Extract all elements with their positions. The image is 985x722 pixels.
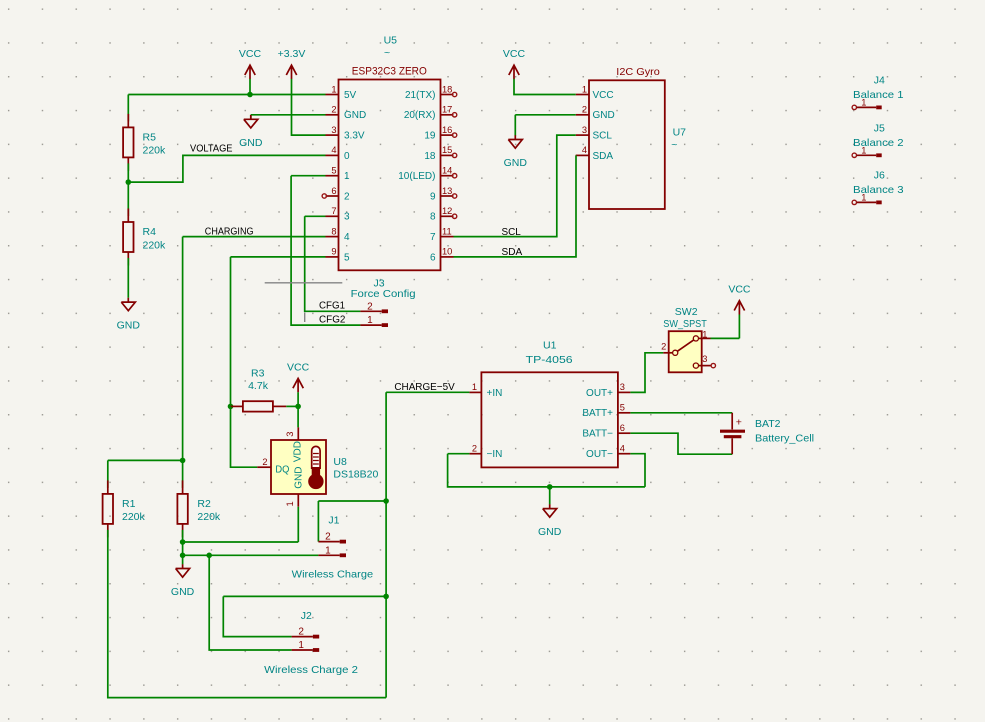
wire OUT- to GND rail — [630, 454, 645, 487]
ground (R4) — [117, 298, 141, 332]
U5 pin 13 9 — [430, 186, 457, 203]
svg-text:VCC: VCC — [593, 90, 614, 101]
U5 pin 8 4 — [326, 226, 351, 243]
svg-text:SCL: SCL — [593, 131, 613, 142]
U7 pin 2 GND — [576, 105, 615, 122]
wire BATT+ to battery — [630, 412, 732, 414]
svg-text:VCC: VCC — [239, 48, 262, 60]
U5 pin 17 20(RX) — [404, 105, 457, 122]
resistor R2 220k — [177, 480, 221, 537]
J2 pin 2 — [292, 627, 320, 639]
J1 pin 1 — [318, 545, 346, 557]
junction J2 branch — [383, 594, 389, 600]
U5 pin 1 5V — [326, 84, 357, 101]
connector J5 Balance 2 — [852, 122, 904, 157]
svg-text:TP-4056: TP-4056 — [526, 354, 573, 366]
svg-text:VDD: VDD — [293, 441, 304, 462]
svg-text:10: 10 — [442, 247, 452, 257]
svg-text:R2: R2 — [197, 498, 211, 510]
wire node to U8 DQ — [231, 406, 258, 467]
U5 pin 14 10(LED) — [398, 166, 457, 183]
U5 pin 16 19 — [424, 125, 456, 142]
U1 pin 1 +IN — [469, 382, 502, 399]
J3 pin 1 — [360, 315, 388, 327]
wire R5 to junction — [127, 163, 129, 182]
wire VOLTAGE net to U5 pin4 — [128, 155, 325, 182]
svg-text:4: 4 — [344, 232, 350, 243]
svg-text:2: 2 — [472, 444, 477, 454]
resistor R3 4.7k — [231, 368, 287, 412]
svg-text:17: 17 — [442, 105, 452, 115]
svg-text:Wireless Charge: Wireless Charge — [292, 569, 374, 581]
svg-text:I2C Gyro: I2C Gyro — [616, 66, 660, 78]
power symbol VCC (R3/U8) — [287, 361, 310, 392]
wire J1 pin2 branch — [318, 501, 386, 542]
op-amp U5 ESP32C3 ZERO body — [339, 80, 441, 271]
power symbol +3.3V — [278, 48, 306, 79]
svg-text:CHARGING: CHARGING — [205, 225, 254, 237]
wire U5 pin7 to CFG1 — [305, 216, 361, 311]
svg-text:J5: J5 — [874, 122, 885, 134]
wire node to U8 VDD — [297, 406, 299, 427]
power symbol VCC (U7) — [503, 48, 526, 79]
svg-text:5: 5 — [344, 252, 350, 263]
svg-text:21(TX): 21(TX) — [405, 90, 436, 101]
svg-text:2: 2 — [582, 105, 587, 115]
svg-text:Battery_Cell: Battery_Cell — [755, 433, 814, 445]
junction VOLTAGE divider — [126, 179, 132, 185]
svg-text:1: 1 — [702, 330, 707, 340]
U5 pin 4 0 — [326, 145, 351, 162]
svg-text:R3: R3 — [251, 368, 265, 380]
J2 pin 1 — [292, 640, 320, 652]
svg-text:BATT−: BATT− — [582, 429, 613, 440]
junction R3 left — [228, 404, 234, 410]
svg-text:3: 3 — [702, 354, 707, 364]
junction J1/J2 branch — [206, 553, 212, 559]
U1 pin 4 OUT- — [586, 444, 630, 461]
svg-text:CFG2: CFG2 — [319, 313, 346, 325]
svg-text:220k: 220k — [197, 511, 221, 523]
svg-text:18: 18 — [424, 151, 436, 162]
U5 pin 2 GND — [326, 105, 367, 122]
op-amp U1 TP-4056 body — [481, 372, 618, 467]
svg-text:6: 6 — [331, 186, 336, 196]
U5 pin 18 21(TX) — [405, 84, 457, 101]
wire CHARGE-5V vertical — [385, 392, 387, 596]
svg-text:12: 12 — [442, 206, 452, 216]
U5 pin 12 8 — [430, 206, 457, 223]
svg-text:0: 0 — [344, 151, 350, 162]
svg-text:220k: 220k — [143, 145, 167, 157]
svg-text:3: 3 — [582, 125, 587, 135]
svg-text:2: 2 — [344, 191, 350, 202]
wire CHARGING net to U5 pin8 — [183, 236, 326, 238]
U1 pin 5 BATT+ — [582, 403, 630, 420]
svg-text:20(RX): 20(RX) — [404, 110, 436, 121]
U7 pin 3 SCL — [576, 125, 613, 142]
wire CHARGING down to divider — [182, 237, 184, 461]
junction R2 / U8 GND rail — [180, 539, 186, 545]
wire divider top rail — [108, 459, 183, 461]
junction VCC / 5V — [247, 92, 253, 98]
transistor U8 DS18B20 body — [257, 427, 326, 506]
svg-text:1: 1 — [285, 501, 295, 506]
svg-text:DQ: DQ — [275, 464, 289, 475]
svg-text:OUT−: OUT− — [586, 449, 613, 460]
wire U5 pin9 to R3/DQ — [231, 257, 326, 407]
svg-text:1: 1 — [861, 98, 866, 108]
svg-text:1: 1 — [472, 382, 477, 392]
svg-text:11: 11 — [442, 226, 452, 236]
U5 pin 3 3.3V — [326, 125, 365, 142]
wire to R2 — [182, 460, 184, 488]
svg-text:7: 7 — [430, 232, 436, 243]
svg-text:6: 6 — [430, 252, 436, 263]
svg-text:9: 9 — [430, 191, 436, 202]
svg-text:R5: R5 — [143, 131, 157, 143]
svg-text:+: + — [736, 417, 742, 429]
U1 pin 3 OUT+ — [586, 382, 630, 399]
svg-text:6: 6 — [620, 423, 625, 433]
resistor R4 220k — [123, 209, 166, 266]
svg-text:14: 14 — [442, 166, 452, 176]
power symbol VCC (SW2) — [728, 284, 751, 315]
svg-text:1: 1 — [344, 171, 350, 182]
svg-text:GND: GND — [117, 320, 141, 332]
connector J1 Wireless Charge — [328, 514, 339, 526]
svg-text:4: 4 — [331, 145, 336, 155]
svg-text:VCC: VCC — [728, 284, 751, 296]
wire VCC stem — [249, 79, 251, 95]
U5 pin 5 1 — [326, 166, 351, 183]
battery BAT2 Battery_Cell — [720, 413, 814, 454]
svg-text:3: 3 — [344, 212, 350, 223]
svg-text:1: 1 — [298, 640, 304, 651]
svg-text:OUT+: OUT+ — [586, 388, 613, 399]
svg-text:GND: GND — [239, 137, 263, 149]
wire U5 GND pin to ground — [251, 115, 326, 120]
connector J6 Balance 3 — [852, 170, 904, 205]
ground (U7) — [504, 135, 528, 169]
wire VCC to R5 — [127, 95, 129, 122]
power symbol VCC (U5 5V) — [239, 48, 262, 79]
svg-text:−IN: −IN — [487, 449, 503, 460]
svg-text:19: 19 — [424, 131, 436, 142]
graphic line (gray) horizontal — [265, 282, 343, 284]
svg-text:220k: 220k — [143, 239, 167, 251]
U8 thermometer icon — [308, 446, 323, 489]
svg-text:Wireless Charge 2: Wireless Charge 2 — [264, 664, 358, 676]
svg-text:5: 5 — [620, 403, 625, 413]
svg-text:SW2: SW2 — [675, 306, 698, 318]
svg-text:1: 1 — [861, 145, 866, 155]
svg-text:~: ~ — [671, 139, 677, 151]
svg-text:J6: J6 — [874, 170, 885, 182]
svg-text:U5: U5 — [384, 34, 398, 46]
svg-text:2: 2 — [661, 341, 666, 351]
wire -IN to GND rail — [448, 454, 645, 487]
ground (U5 pin2) — [239, 115, 263, 149]
svg-text:2: 2 — [262, 457, 267, 467]
wire U5 pin5 to CFG2 — [291, 176, 360, 325]
wire to ground — [182, 555, 184, 564]
svg-text:5V: 5V — [344, 90, 357, 101]
svg-text:7: 7 — [331, 206, 336, 216]
wire U8 GND to rail — [183, 507, 299, 542]
svg-text:220k: 220k — [122, 511, 146, 523]
U5 pin 6 2 — [322, 186, 350, 203]
wire OUT+ to SW2 — [630, 353, 663, 393]
connector J3 Force Config — [351, 278, 416, 300]
graphic line (gray) vertical — [304, 313, 306, 323]
svg-text:16: 16 — [442, 125, 452, 135]
svg-text:GND: GND — [538, 526, 562, 538]
resistor R1 220k — [103, 480, 146, 537]
svg-text:SDA: SDA — [502, 246, 523, 258]
svg-text:8: 8 — [430, 212, 436, 223]
svg-text:VOLTAGE: VOLTAGE — [190, 142, 233, 154]
wire R3 to VCC node — [286, 405, 298, 407]
svg-text:SCL: SCL — [502, 226, 521, 238]
svg-text:1: 1 — [367, 315, 373, 326]
svg-text:CFG1: CFG1 — [319, 300, 345, 312]
U1 pin 2 -IN — [469, 444, 502, 461]
connector J4 Balance 1 — [852, 75, 904, 110]
svg-text:2: 2 — [298, 627, 304, 638]
svg-text:GND: GND — [293, 467, 304, 489]
svg-text:3: 3 — [620, 382, 625, 392]
U7 pin 1 VCC — [576, 84, 614, 101]
wire to ground — [549, 487, 551, 505]
svg-text:1: 1 — [582, 84, 587, 94]
op-amp U7 I2C Gyro body — [589, 80, 665, 209]
wire rail link — [182, 542, 184, 555]
svg-text:2: 2 — [331, 105, 336, 115]
junction U1 GND — [547, 484, 553, 490]
resistor R5 220k — [123, 114, 166, 171]
svg-text:~: ~ — [384, 47, 390, 59]
svg-text:J2: J2 — [301, 610, 312, 622]
svg-text:VCC: VCC — [503, 48, 526, 60]
svg-text:GND: GND — [504, 157, 528, 169]
svg-text:Force Config: Force Config — [351, 288, 416, 300]
junction R3 right / VDD — [295, 404, 301, 410]
svg-text:13: 13 — [442, 186, 452, 196]
wire VCC stem to node — [297, 392, 299, 406]
svg-text:18: 18 — [442, 84, 452, 94]
svg-text:1: 1 — [325, 545, 331, 556]
svg-text:8: 8 — [331, 226, 336, 236]
svg-text:4: 4 — [620, 444, 625, 454]
svg-text:GND: GND — [593, 110, 615, 121]
svg-text:10(LED): 10(LED) — [398, 171, 435, 182]
wire SCL net — [454, 135, 576, 237]
svg-text:SW_SPST: SW_SPST — [663, 318, 707, 330]
wire R4 to ground — [127, 258, 129, 298]
wire rail to J1 pin1 — [183, 554, 319, 556]
svg-text:VCC: VCC — [287, 361, 310, 373]
wire +3.3V to U5 pin3 — [292, 79, 326, 135]
junction J1 pin2 branch — [383, 498, 389, 504]
connector J2 Wireless Charge 2 — [301, 610, 312, 622]
svg-text:U1: U1 — [543, 339, 557, 351]
svg-text:3: 3 — [331, 125, 336, 135]
U5 pin 11 7 — [430, 226, 454, 243]
wire to R1 — [107, 460, 109, 488]
wire SDA net — [454, 155, 577, 257]
svg-text:4.7k: 4.7k — [248, 380, 269, 392]
svg-text:1: 1 — [331, 84, 336, 94]
svg-text:+3.3V: +3.3V — [278, 48, 306, 60]
U5 pin 7 3 — [326, 206, 351, 223]
J1 pin 2 — [318, 532, 346, 544]
U5 pin 15 18 — [424, 145, 456, 162]
svg-text:SDA: SDA — [593, 151, 614, 162]
wire SW2 to VCC — [711, 337, 740, 339]
svg-text:BATT+: BATT+ — [582, 408, 613, 419]
junction GND rail — [180, 553, 186, 559]
svg-text:ESP32C3 ZERO: ESP32C3 ZERO — [352, 66, 427, 78]
wire R1 to bottom rail — [108, 530, 386, 698]
wire bottom rail up — [385, 596, 387, 697]
svg-text:2: 2 — [325, 532, 331, 543]
svg-text:J4: J4 — [874, 75, 885, 87]
ground (U1) — [538, 504, 562, 538]
svg-text:1: 1 — [861, 193, 866, 203]
svg-text:R4: R4 — [143, 226, 157, 238]
U5 pin 10 6 — [430, 247, 454, 264]
ground (R2/J1) — [171, 564, 195, 598]
wire BATT- to battery — [630, 433, 732, 454]
U1 pin 6 BATT- — [582, 423, 630, 440]
svg-text:R1: R1 — [122, 498, 136, 510]
svg-text:U8: U8 — [333, 456, 347, 468]
wire 5V net to U5 pin1 — [128, 94, 325, 96]
wire VCC to U7 pin1 — [514, 79, 576, 95]
wire J2 pin1 branch — [209, 555, 291, 650]
wire junction to R4 — [127, 182, 129, 216]
svg-text:3: 3 — [285, 432, 295, 437]
svg-text:CHARGE−5V: CHARGE−5V — [394, 381, 454, 393]
svg-text:+IN: +IN — [487, 388, 503, 399]
svg-text:BAT2: BAT2 — [755, 418, 781, 430]
svg-text:DS18B20: DS18B20 — [333, 468, 378, 480]
junction CHARGING / R1 / R2 — [180, 458, 186, 464]
svg-text:J1: J1 — [328, 514, 339, 526]
svg-text:GND: GND — [344, 110, 366, 121]
wire CHARGE-5V to +IN — [386, 391, 469, 393]
wire R2 to rail — [182, 530, 184, 542]
svg-text:3.3V: 3.3V — [344, 131, 365, 142]
svg-text:U7: U7 — [673, 126, 687, 138]
svg-text:5: 5 — [331, 166, 336, 176]
wire J2 pin2 branch — [223, 596, 386, 636]
svg-text:2: 2 — [367, 301, 373, 312]
U5 pin 9 5 — [326, 247, 351, 264]
wire VCC stem SW2 — [738, 315, 740, 339]
svg-text:4: 4 — [582, 145, 587, 155]
J3 pin 2 — [360, 301, 388, 313]
switch SW2 SW_SPST — [661, 306, 715, 372]
U7 pin 4 SDA — [576, 145, 614, 162]
svg-text:9: 9 — [331, 247, 336, 257]
svg-text:GND: GND — [171, 586, 195, 598]
svg-text:15: 15 — [442, 145, 452, 155]
wire U7 GND pin to ground — [515, 115, 575, 136]
